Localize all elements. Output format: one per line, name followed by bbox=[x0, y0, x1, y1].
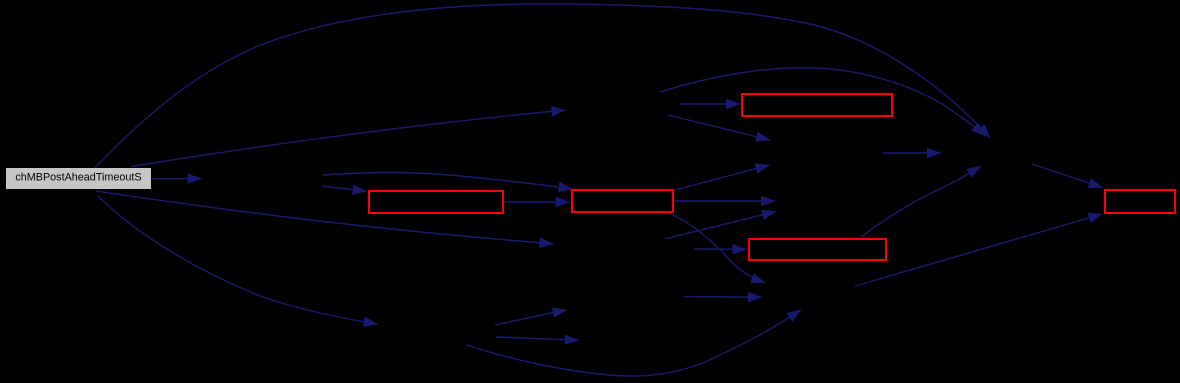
wire N6->N8 bbox=[496, 337, 579, 340]
wire N6->N7 bbox=[495, 310, 567, 325]
wire gray->N2 bbox=[152, 178, 202, 180]
node A red box top bbox=[742, 94, 892, 116]
wire N6->N4 bottom swoop bbox=[466, 310, 801, 377]
wire N2->B bbox=[322, 186, 367, 191]
node C red box middle bbox=[572, 190, 673, 212]
wire N1->M1 bbox=[668, 115, 770, 140]
wire C->N4 curve bbox=[669, 213, 765, 283]
wire N3->N5 bbox=[665, 212, 776, 239]
wire C->N5 bbox=[675, 200, 775, 202]
wire N7->N4 bbox=[684, 296, 762, 299]
wire D->R1 curve bbox=[861, 166, 981, 237]
wire gray->N3 bbox=[96, 191, 554, 244]
node B red box left bbox=[369, 191, 503, 213]
node E red box right bbox=[1105, 190, 1175, 213]
wire M1->R1 bbox=[883, 152, 941, 154]
node chMBPostAheadTimeoutS (gray) bbox=[6, 168, 151, 189]
wire N4->E bbox=[855, 214, 1103, 286]
wire B->C bbox=[504, 201, 570, 203]
wire N3->D bbox=[694, 248, 747, 250]
wire R1->E bbox=[1032, 164, 1103, 188]
wire gray->N1 bbox=[131, 110, 566, 167]
wire C->M2 bbox=[675, 165, 770, 190]
node D red box lower bbox=[749, 239, 886, 260]
wire N1->R1 curve bbox=[660, 68, 985, 136]
wire N2->C curve over B bbox=[323, 172, 573, 189]
wire gray->N6 bbox=[98, 196, 378, 324]
svg-text:chMBPostAheadTimeoutS: chMBPostAheadTimeoutS bbox=[15, 172, 141, 184]
wire gray->R1 big top curve bbox=[95, 4, 990, 168]
wire N1->A bbox=[680, 103, 740, 105]
